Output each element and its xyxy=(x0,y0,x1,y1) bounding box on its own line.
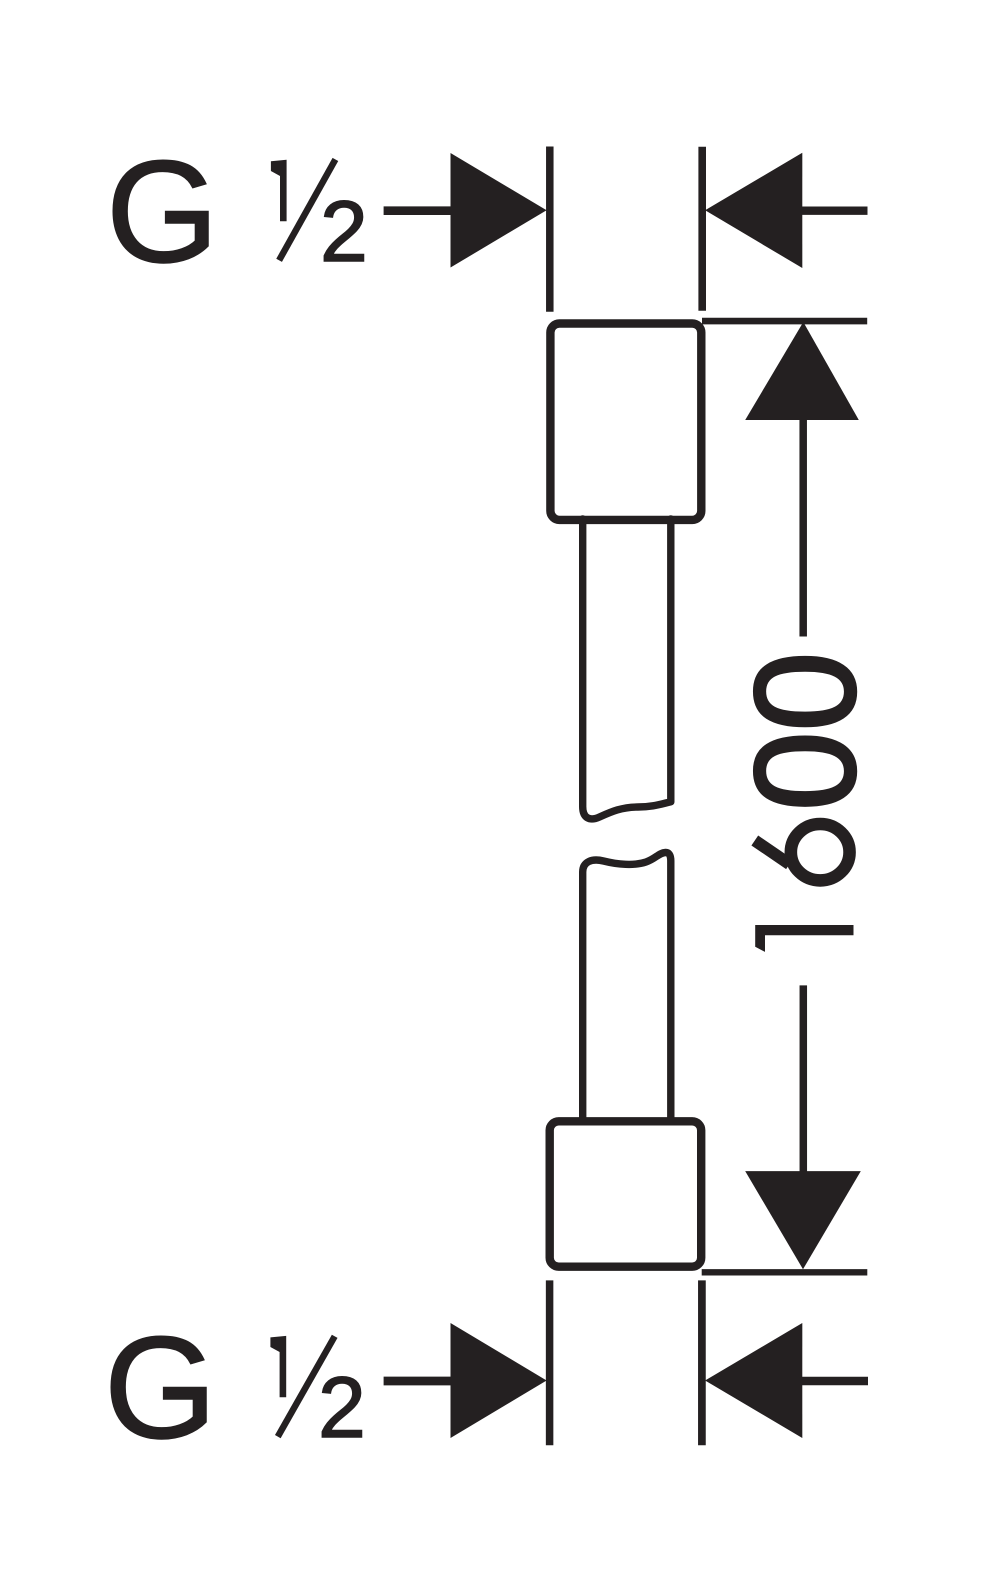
lower dimension line xyxy=(702,1269,868,1275)
hose upper segment xyxy=(583,519,671,819)
svg-text:2: 2 xyxy=(320,184,368,280)
bottom dimension arrow right tail xyxy=(802,1377,868,1386)
bottom extension line right xyxy=(698,1280,706,1445)
label 1/2 slash top xyxy=(279,159,335,260)
bottom dimension arrow left tail xyxy=(384,1377,455,1386)
top dimension arrow left tail xyxy=(384,206,455,215)
bottom extension line left xyxy=(546,1280,554,1445)
label 1/2 numerator bottom xyxy=(270,1336,286,1397)
1600 arrow up head xyxy=(745,322,859,420)
bottom dimension arrow right head xyxy=(705,1323,802,1438)
label 1/2 numerator top xyxy=(271,160,287,222)
svg-text:00: 00 xyxy=(726,652,885,811)
hose lower segment xyxy=(583,852,671,1121)
1600 label digit 6 xyxy=(755,824,850,880)
label 1/2 slash bottom xyxy=(278,1336,335,1436)
upper hose connector xyxy=(550,324,701,520)
svg-text:G: G xyxy=(106,131,219,293)
1600 label digit 1 xyxy=(755,925,853,952)
top dimension arrow right head xyxy=(705,153,802,268)
top dimension arrow right tail xyxy=(802,206,868,214)
1600 arrow shaft top xyxy=(799,419,807,637)
1600 arrow shaft bottom xyxy=(800,985,808,1171)
top extension line left xyxy=(546,147,554,312)
upper dimension line 1600 xyxy=(702,318,867,325)
top dimension arrow left head xyxy=(451,153,547,268)
svg-text:G: G xyxy=(104,1307,217,1469)
bottom dimension arrow left head xyxy=(451,1323,547,1438)
lower hose connector xyxy=(550,1121,702,1266)
svg-text:2: 2 xyxy=(318,1360,366,1456)
1600 arrow down head xyxy=(745,1171,861,1269)
top extension line right xyxy=(698,147,706,311)
